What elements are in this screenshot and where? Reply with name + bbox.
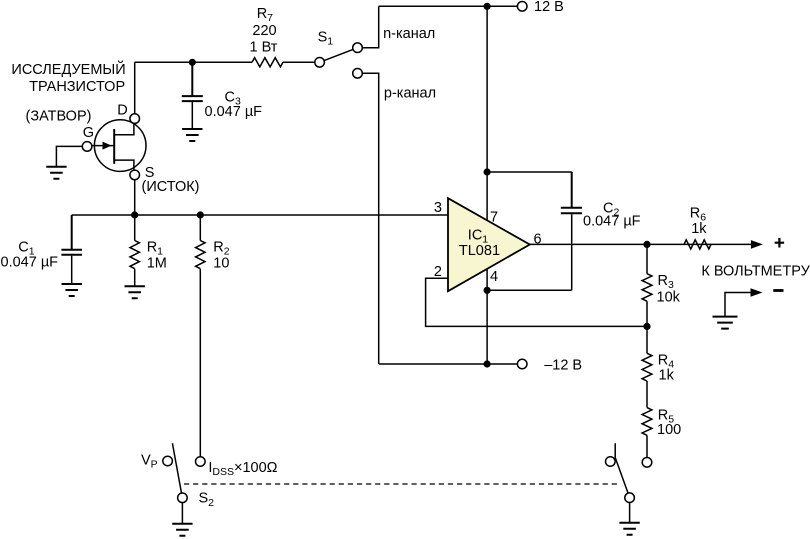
svg-text:10k: 10k: [657, 289, 681, 305]
ground voltmeter: [713, 317, 738, 329]
svg-text:2: 2: [434, 264, 442, 280]
svg-text:1M: 1M: [147, 255, 167, 271]
node pin7/C2: [484, 168, 491, 175]
switch S2b contact: [606, 457, 616, 467]
wire source to rail: [134, 180, 136, 215]
svg-text:TL081: TL081: [459, 243, 500, 259]
wire pin 2 feedback: [426, 278, 647, 326]
wire source rail to op-amp pin 3: [72, 214, 448, 216]
svg-text:220: 220: [252, 23, 276, 39]
svg-text:G: G: [83, 125, 94, 141]
svg-text:ТРАНЗИСТОР: ТРАНЗИСТОР: [29, 79, 125, 95]
wire drain D node to R7: [135, 62, 252, 114]
transistor Q1 channel bar: [113, 129, 115, 164]
ground R1: [125, 286, 145, 298]
node pin4/C2: [484, 287, 491, 294]
switch S2a Vp contact: [163, 456, 173, 466]
capacitor C3: [182, 62, 203, 101]
switch S1 p-channel contact: [353, 69, 363, 79]
pin D terminal: [130, 114, 140, 124]
svg-text:IDSS×100Ω: IDSS×100Ω: [208, 460, 277, 478]
switch S2a Idss contact: [196, 457, 206, 467]
wire C1 to ground: [71, 256, 73, 284]
svg-text:n-канал: n-канал: [383, 26, 435, 42]
wire +12V to pin 7: [486, 6, 488, 220]
wire R2 top: [199, 215, 201, 241]
wire n-contact to +12V rail: [362, 6, 378, 47]
wire ganged switch dashed link: [184, 483, 621, 485]
op-amp U1 TL081: [448, 198, 530, 291]
node +12V rail / pin7 branch: [484, 3, 491, 10]
svg-text:p-канал: p-канал: [384, 86, 436, 102]
svg-text:S2: S2: [199, 491, 215, 509]
svg-text:1k: 1k: [659, 368, 675, 384]
transistor Q1 gate lead with arrow: [92, 145, 114, 147]
node output/R3: [643, 241, 650, 248]
wire voltmeter minus arrow: [725, 293, 752, 317]
svg-text:1k: 1k: [691, 221, 707, 237]
wire R1 to ground: [134, 215, 136, 286]
arrowhead minus: [751, 288, 763, 297]
wire C3 to ground: [191, 102, 193, 129]
svg-text:D: D: [117, 103, 127, 119]
svg-text:3: 3: [434, 200, 442, 216]
wire gate to ground: [56, 146, 82, 166]
resistor R6: [684, 240, 711, 249]
resistor R1: [130, 241, 139, 269]
wire S2a pole to ground: [181, 503, 183, 524]
svg-text:1 Вт: 1 Вт: [250, 39, 278, 55]
wire p-contact down to -12V rail: [362, 73, 378, 364]
switch S2a pole: [178, 493, 188, 503]
capacitor C1: [61, 215, 82, 255]
ground C1: [62, 284, 82, 296]
pin S terminal: [130, 170, 140, 180]
wire R5 to terminal: [646, 435, 648, 457]
wire S2b pole to ground: [629, 503, 631, 523]
node source/C1/R1: [131, 211, 138, 218]
resistor R4: [642, 353, 652, 381]
wire R4: [646, 326, 648, 407]
svg-text:–12 В: –12 В: [544, 357, 582, 373]
ground S2a: [172, 524, 192, 536]
switch S1 arm: [324, 49, 353, 60]
resistor R3: [642, 274, 652, 302]
terminal +12V: [517, 2, 527, 12]
wire R2 down to S2 contact: [199, 269, 201, 457]
ground C3: [182, 129, 202, 141]
pin G terminal: [82, 142, 92, 152]
switch S2b pole: [625, 493, 635, 503]
svg-text:S: S: [145, 165, 155, 181]
svg-text:VP: VP: [141, 452, 158, 470]
svg-text:10: 10: [213, 255, 229, 271]
transistor Q1 drain lead: [114, 123, 134, 134]
switch S1 n-channel contact: [353, 43, 363, 53]
svg-text:ИССЛЕДУЕМЫЙ: ИССЛЕДУЕМЫЙ: [11, 60, 125, 78]
node -12V rail / pin4 branch: [484, 360, 491, 367]
svg-text:4: 4: [490, 269, 498, 285]
wire R3: [646, 244, 648, 326]
svg-text:S1: S1: [318, 30, 334, 48]
svg-text:0.047 µF: 0.047 µF: [583, 214, 641, 230]
wire pin 4 down to -12V rail: [486, 269, 488, 364]
node source/R2: [197, 211, 204, 218]
terminal -12V: [517, 359, 527, 369]
switch S2a arm: [172, 443, 181, 493]
wire +12V rail: [379, 5, 518, 7]
svg-text:0.047 µF: 0.047 µF: [205, 104, 263, 120]
arrowhead output: [751, 240, 763, 249]
resistor R2: [196, 241, 205, 269]
svg-text:12 В: 12 В: [534, 0, 564, 15]
label minus: [773, 289, 783, 292]
switch S1 common contact: [315, 58, 325, 68]
label +: [775, 238, 785, 248]
svg-text:7: 7: [490, 209, 498, 225]
ground gate: [46, 167, 66, 179]
transistor Q1 body: [94, 120, 146, 172]
wire C2 bottom branch: [487, 214, 572, 290]
svg-text:(ЗАТВОР): (ЗАТВОР): [26, 109, 92, 125]
svg-text:R7: R7: [257, 6, 273, 24]
terminal R5 bottom: [642, 458, 652, 468]
transistor Q1 source lead: [114, 160, 134, 170]
wire C2 top branch: [487, 171, 572, 173]
resistor R5: [642, 408, 652, 436]
wire output pin 6: [530, 243, 752, 245]
node C3/R7 junction: [189, 59, 196, 66]
wire -12V rail: [379, 363, 518, 365]
resistor R7: [252, 58, 283, 67]
node R3/R4/feedback: [643, 323, 650, 330]
wire R7 to S1: [283, 61, 315, 63]
ground S2b: [619, 523, 639, 535]
svg-text:0.047 µF: 0.047 µF: [1, 254, 59, 270]
svg-text:К ВОЛЬТМЕТРУ: К ВОЛЬТМЕТРУ: [701, 263, 810, 279]
svg-text:100: 100: [657, 422, 681, 438]
switch S2b arm: [615, 443, 628, 493]
capacitor C2: [561, 172, 582, 213]
